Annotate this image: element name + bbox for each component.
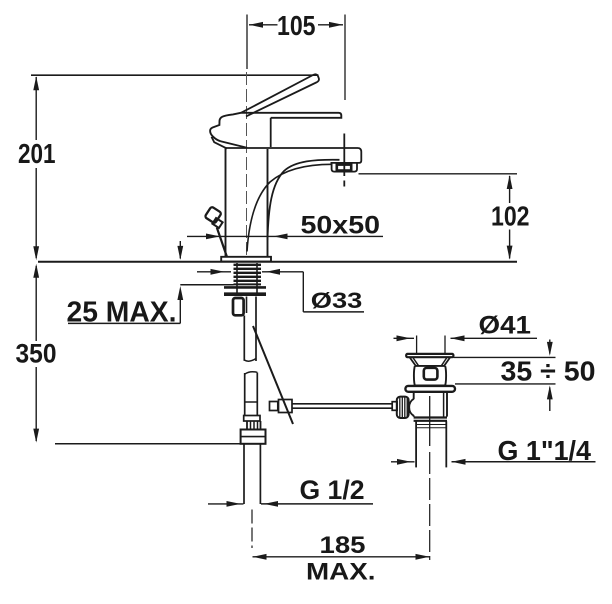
svg-text:50x50: 50x50 (301, 211, 381, 239)
hose upper segment (243, 316, 245, 361)
svg-text:201: 201 (18, 138, 56, 169)
faucet centerline (246, 72, 248, 257)
dimension 105 line (249, 24, 278, 26)
lever handle blade (242, 74, 319, 116)
svg-text:Ø41: Ø41 (479, 312, 532, 340)
drain rim (406, 354, 453, 357)
dimension G 1/2 (208, 503, 244, 505)
hose end collar (244, 416, 260, 422)
horizontal rod to drain (292, 403, 392, 405)
spout head (331, 148, 362, 163)
top reference line (31, 74, 319, 76)
drain flange (405, 386, 455, 392)
25 MAX dimension (179, 241, 181, 259)
dimension 50x50 line (187, 235, 383, 237)
deck underside line (180, 284, 233, 286)
barrel sides (413, 366, 416, 385)
dark band (414, 416, 447, 418)
hub lower-right diagonal (221, 141, 247, 148)
dimension 102 line (509, 176, 511, 203)
pop-up rod diagonal (253, 326, 293, 424)
aerator (332, 163, 357, 172)
svg-text:25 MAX.: 25 MAX. (67, 296, 177, 328)
aerator centerline (343, 134, 345, 177)
svg-text:350: 350 (16, 338, 57, 368)
hose crimp fitting (233, 298, 244, 315)
spout outer curve (268, 160, 340, 240)
hose end nut G1/2 (241, 430, 266, 444)
tailpiece (415, 421, 417, 467)
funnel sides (410, 358, 416, 366)
svg-text:185: 185 (320, 532, 366, 559)
dimension Ø41 (416, 336, 418, 354)
dimension G 1"1/4 (391, 461, 415, 463)
350 bottom reference line (55, 443, 265, 445)
pop-up knob (205, 206, 222, 223)
handle hub (210, 113, 242, 142)
deck / mounting surface line (38, 261, 517, 263)
locknut bars (224, 286, 266, 289)
svg-text:G 1/2: G 1/2 (300, 475, 365, 505)
drain centerline (429, 396, 431, 446)
lever cap bar (242, 113, 342, 118)
body left edge (225, 148, 227, 257)
svg-text:G 1"1/4: G 1"1/4 (498, 435, 592, 466)
svg-text:Ø33: Ø33 (311, 288, 363, 313)
tube below nut (243, 444, 245, 504)
rod end cap (392, 402, 397, 411)
drain knob (knurled) (397, 397, 409, 418)
drain body (413, 392, 415, 399)
ball housing bulge (409, 399, 414, 416)
dimension 102 extension top (359, 173, 518, 175)
svg-text:35 ÷ 50: 35 ÷ 50 (501, 355, 596, 386)
svg-text:102: 102 (491, 201, 530, 232)
dimension 35÷50 (454, 356, 556, 358)
body top step line + spout top line (226, 147, 358, 149)
hose lower segment (245, 372, 258, 374)
dimension 350 line (35, 266, 37, 341)
square hole (424, 368, 438, 380)
second hose tube (246, 297, 248, 314)
svg-text:105: 105 (277, 10, 316, 41)
threaded shank (234, 263, 262, 296)
clevis (270, 402, 278, 411)
ribbed ring (247, 421, 261, 429)
body right edge lower (267, 149, 269, 257)
dimension 185 MAX (253, 556, 430, 558)
dimension Ø33 (197, 271, 231, 273)
svg-text:MAX.: MAX. (306, 559, 376, 586)
dimension 201 line (35, 77, 37, 140)
spout inner curve (247, 164, 332, 251)
dimension 105 extension line right (344, 15, 346, 101)
hub underside to body corner (212, 137, 228, 149)
pop-up rod upper (217, 228, 227, 258)
base plate (221, 257, 271, 262)
aerator insert (337, 165, 351, 171)
cartridge block left edge (270, 118, 272, 147)
dimension 105 extension line left (246, 15, 248, 70)
hose centerline below (251, 510, 253, 549)
